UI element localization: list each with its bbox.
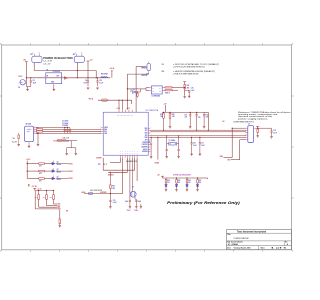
svg-text:JP1: JP1 [30,54,33,56]
connector J5 [248,126,254,143]
wires into U2 top [118,100,120,110]
wire jumper JP1 to select line [33,63,35,71]
svg-text:1 of 1: 1 of 1 [271,248,287,250]
IC U3 SN75240 [151,86,162,94]
svg-text:DM0: DM0 [104,129,107,131]
oscillator Y2 circle [129,158,131,201]
svg-text:= DP0 PULLUP DETACHED FROM VC: = DP0 PULLUP DETACHED FROM VCC [173,65,206,68]
svg-text:R27: R27 [199,180,202,182]
svg-text:0.1uF: 0.1uF [273,132,277,134]
resistor R15 pulldown [169,111,171,114]
svg-text:1K5: 1K5 [112,188,115,190]
svg-text:PWRSW: PWRSW [141,67,147,69]
svg-text:VCC: VCC [120,115,123,117]
wire PWRSW from above [136,66,146,68]
shield ground bracket [70,141,72,148]
svg-text:22pF: 22pF [138,201,141,203]
power flag arrow [64,77,67,79]
wire GND pin [36,132,102,134]
svg-text:G: G [134,153,135,155]
wire OVRCUR from above [127,73,148,75]
wire bottom pin short [136,158,138,181]
capacitor C16 hang [191,137,193,142]
svg-text:100K: 100K [49,196,52,198]
transistor row 3 wire [27,178,39,180]
svg-text:PWR3: PWR3 [68,178,72,180]
svg-text:+5V: +5V [157,175,160,177]
svg-text:U1: U1 [46,70,48,72]
svg-text:+3.3V: +3.3V [116,108,120,110]
svg-text:GND: GND [104,133,107,135]
IC U2 bottom pins [119,155,121,158]
svg-text:C9: C9 [85,80,87,82]
svg-text:SI2333: SI2333 [57,164,62,166]
svg-text:100K: 100K [42,196,45,198]
svg-text:100K: 100K [34,196,37,198]
svg-text:1.5K: 1.5K [172,116,175,118]
svg-text:C19: C19 [273,130,276,132]
transistor Q2 [51,170,53,173]
wire up to U2 pin [122,158,124,194]
svg-text:G: G [122,153,123,155]
LED cell 2 [176,178,178,180]
power label +5V DL [28,184,29,185]
svg-text:TUSB2077A EVM: TUSB2077A EVM [233,237,248,240]
svg-text:Y1 12MHz: Y1 12MHz [169,140,176,142]
svg-text:R25: R25 [178,180,181,182]
wire bottom bracket [102,158,104,170]
svg-text:GND: GND [51,82,54,84]
svg-text:SH: SH [13,138,15,140]
svg-text:SI2333: SI2333 [57,172,62,174]
wire DM4 down [231,128,233,157]
svg-text:FB1 600R: FB1 600R [101,73,109,75]
wire pullup top [35,190,53,192]
jumper JP3 small [147,64,151,71]
svg-text:C16: C16 [198,117,201,119]
svg-text:C8: C8 [33,80,35,82]
svg-text:C16: C16 [193,143,196,145]
svg-text:+5V: +5V [222,121,225,123]
svg-text:VIN: VIN [23,59,26,61]
diode D1 [130,89,132,92]
capacitor C9 [87,78,89,81]
svg-text:+5V DL: +5V DL [32,186,37,188]
ground under U1 [53,86,55,89]
jumper JP2 [74,56,84,62]
svg-text:0.1uF: 0.1uF [193,145,197,147]
svg-text:330: 330 [167,182,169,184]
resistors R30 R31 R32 [38,191,40,195]
svg-text:C18: C18 [205,115,208,117]
title block [227,230,292,250]
svg-text:Q1: Q1 [57,162,59,164]
wire VBUS [36,127,70,129]
svg-text:RN2 27: RN2 27 [165,93,170,95]
pullup R19 with power [183,81,186,83]
svg-text:SCL: SCL [58,205,61,207]
capacitors C11 C12 C14 on VBUS [64,128,66,130]
connector J5 pins [246,127,248,129]
resistor R25 [39,170,45,172]
IC U2 right pins [148,127,150,129]
svg-text:10uF: 10uF [83,82,87,84]
ferrite FB2 with power [256,125,259,127]
svg-text:VCC: VCC [130,115,133,117]
resistor R22 [109,172,111,185]
svg-text:C10: C10 [99,80,102,82]
wires RN2 to rail [172,86,185,88]
svg-text:1K5: 1K5 [187,87,190,89]
connector J6 pins [33,127,35,129]
svg-text:Y2: Y2 [132,186,134,188]
LED cell 3 [186,178,188,180]
connector J4 barrel jack [20,80,25,85]
resistor R14 pullup [163,111,165,114]
svg-text:G: G [125,153,126,155]
svg-text:BUSPWR: BUSPWR [142,147,148,149]
resistor R26 [39,178,45,180]
svg-text:G: G [120,153,121,155]
svg-text:BUSPWR: BUSPWR [100,192,106,194]
wire jumper JP2 down [76,63,78,78]
svg-text:OFF: OFF [161,71,165,73]
wire rail pair 1 DM/DP [150,129,246,131]
svg-text:OVRCUR: OVRCUR [142,144,148,146]
svg-text:INT: INT [66,210,68,212]
svg-text:R26: R26 [188,180,191,182]
svg-text:.1uF: .1uF [184,117,187,119]
svg-text:C22: C22 [67,141,70,143]
svg-text:RST: RST [58,207,61,209]
svg-text:R3: R3 [37,127,39,129]
svg-text:HPA049: HPA049 [232,243,238,246]
frame zone ticks [30,250,32,252]
main 5V wire [26,77,110,79]
svg-text:Texas Instruments Incorporated: Texas Instruments Incorporated [237,231,266,234]
svg-text:+5V A: +5V A [110,67,115,70]
svg-text:RESETZ: RESETZ [108,174,114,176]
wire subrail end down [204,111,208,113]
svg-text:C21: C21 [113,200,116,202]
wire bottom pin fanout left 2 [127,158,129,173]
ground under jack [25,85,27,86]
svg-text:330: 330 [199,182,201,184]
capacitor C15 [189,112,191,114]
IC U2 TUSB2077A body [103,112,148,155]
transistor Q1 [51,162,53,165]
capacitor C8 [30,78,32,81]
wire LED rail [163,177,199,179]
svg-text:R19: R19 [187,85,190,87]
resistor network RN2 [165,87,172,88]
svg-text:2B: 2B [159,90,161,92]
svg-text:DP2: DP2 [145,135,148,137]
diode D3 [59,219,61,224]
svg-text:2.2M .01uF: 2.2M .01uF [62,138,69,140]
regulator U1 [46,73,62,84]
wire bottom pin fanout left 1 [119,158,121,163]
jumper JP1 [32,56,42,62]
svg-text:DP_U: DP_U [104,164,108,166]
svg-text:.1uF: .1uF [205,117,208,119]
capacitor C19 [258,127,272,129]
power symbol VIN [25,61,28,63]
svg-text:0.1uF: 0.1uF [191,90,195,92]
svg-text:GNDS: GNDS [155,163,160,165]
power symbol +3.3V pullups [33,187,36,189]
svg-text:G: G [129,153,130,155]
ground under connector [28,142,30,146]
svg-text:Q2: Q2 [57,169,59,171]
capacitor C17 hang [199,137,201,142]
svg-text:TP8: TP8 [98,164,101,166]
capacitor C21 [109,194,111,201]
svg-text:TPS76350: TPS76350 [53,71,60,73]
svg-text:OUT: OUT [56,76,59,78]
svg-text:G: G [132,153,133,155]
resistor R4 series D+ [35,130,38,132]
LED cell 4 [197,178,199,180]
svg-text:C17: C17 [201,143,204,145]
svg-text:TP5 A: TP5 A [89,98,95,101]
transistor Q3 [51,177,53,180]
svg-text:VCC: VCC [124,115,127,117]
svg-text:R15: R15 [172,114,175,116]
svg-text:D1: D1 [133,89,135,91]
capacitor C18 [203,112,205,114]
connector J6 USB [25,126,34,141]
wire pullup subrail [162,111,204,113]
IC U2 left pins [101,127,103,129]
IC U2 top pins [118,110,120,112]
svg-text:U2 TUSB2077A: U2 TUSB2077A [145,109,159,112]
svg-text:DM2: DM2 [145,133,148,135]
wires U3 left [140,88,146,90]
svg-text:Q3: Q3 [57,177,59,179]
svg-text:Tuesday, May 23, 2000: Tuesday, May 23, 2000 [234,248,251,250]
capacitor C20 [185,89,190,91]
svg-text:JP2: JP2 [73,54,76,56]
transistor row 1 wire [27,163,39,165]
wire to GND label [157,137,159,159]
resistor R24 [39,163,45,165]
svg-text:2-3 = 5V: 2-3 = 5V [43,63,51,65]
svg-text:Preliminary (For Reference Onl: Preliminary (For Reference Only) [167,201,241,205]
svg-text:DC5V: DC5V [18,76,22,78]
svg-text:SHLD: SHLD [53,141,57,143]
svg-text:SUSPND: SUSPND [96,158,101,160]
svg-text:C15: C15 [184,115,187,117]
capacitor C16a [196,112,198,114]
svg-text:G: G [137,153,138,155]
capacitor C10 [97,78,99,81]
svg-text:10uF: 10uF [33,82,37,84]
svg-text:R22: R22 [112,186,115,188]
power symbol +5V LED [161,175,164,177]
wire rail pair 2 DM/DP [150,135,246,137]
svg-text:DP1: DP1 [145,130,148,132]
svg-text:1-2 = 3.3V: 1-2 = 3.3V [43,61,53,63]
svg-text:330: 330 [188,182,190,184]
page border frame [2,45,292,250]
svg-text:+5V: +5V [90,60,93,62]
wire 3.3V rail [26,161,28,179]
staircase wires [34,191,36,209]
svg-text:SELF PWR MODE: SELF PWR MODE [90,190,102,192]
svg-text:PWR1: PWR1 [68,163,72,165]
svg-text:VCC: VCC [117,115,120,117]
svg-text:+3.3V: +3.3V [126,108,130,110]
svg-text:VBUS: VBUS [104,127,108,129]
resistor R below D1 [137,92,139,93]
svg-text:330: 330 [178,182,180,184]
svg-text:SI2333: SI2333 [57,179,62,181]
LED cell 1 [165,178,167,180]
svg-text:1B: 1B [152,90,154,92]
svg-text:DM3: DM3 [145,137,148,139]
svg-text:G: G [127,153,128,155]
svg-text:VCC: VCC [127,115,130,117]
svg-text:0.1uF: 0.1uF [99,82,103,84]
svg-text:C13: C13 [148,142,151,144]
svg-text:J6 USB: J6 USB [25,124,31,126]
svg-text:IN: IN [47,76,48,78]
svg-text:C20: C20 [191,88,194,90]
load caps under Y2 [129,199,131,201]
svg-text:DP3: DP3 [145,140,148,142]
wire +5V branch [127,88,140,90]
resistor R3 series D- [35,128,38,130]
svg-text:J5: J5 [248,123,250,125]
svg-text:DP0: DP0 [104,131,107,133]
svg-text:0.1uF: 0.1uF [113,202,117,204]
svg-text:10uF: 10uF [201,145,204,147]
svg-text:22pF: 22pF [125,201,128,203]
capacitor C13 hang [150,137,152,141]
wire DP4 down [239,140,241,160]
svg-text:= HUB IN POWER SAVE MODE: = HUB IN POWER SAVE MODE [173,72,199,75]
svg-text:DM1: DM1 [145,128,148,130]
crystal load caps [166,144,168,150]
svg-text:OVRCUR: OVRCUR [141,75,147,77]
svg-text:EECLK: EECLK [143,149,147,151]
wire vbus stub right [254,127,258,129]
net label +5V A [111,71,113,78]
svg-text:PWR2: PWR2 [68,171,72,173]
transistor row 2 wire [27,170,39,172]
svg-text:15K: 15K [160,116,163,118]
power symbol +5V [87,60,90,62]
crystal Y1 circuit [166,136,168,144]
svg-text:POWER IN SELECTION: POWER IN SELECTION [43,58,73,60]
